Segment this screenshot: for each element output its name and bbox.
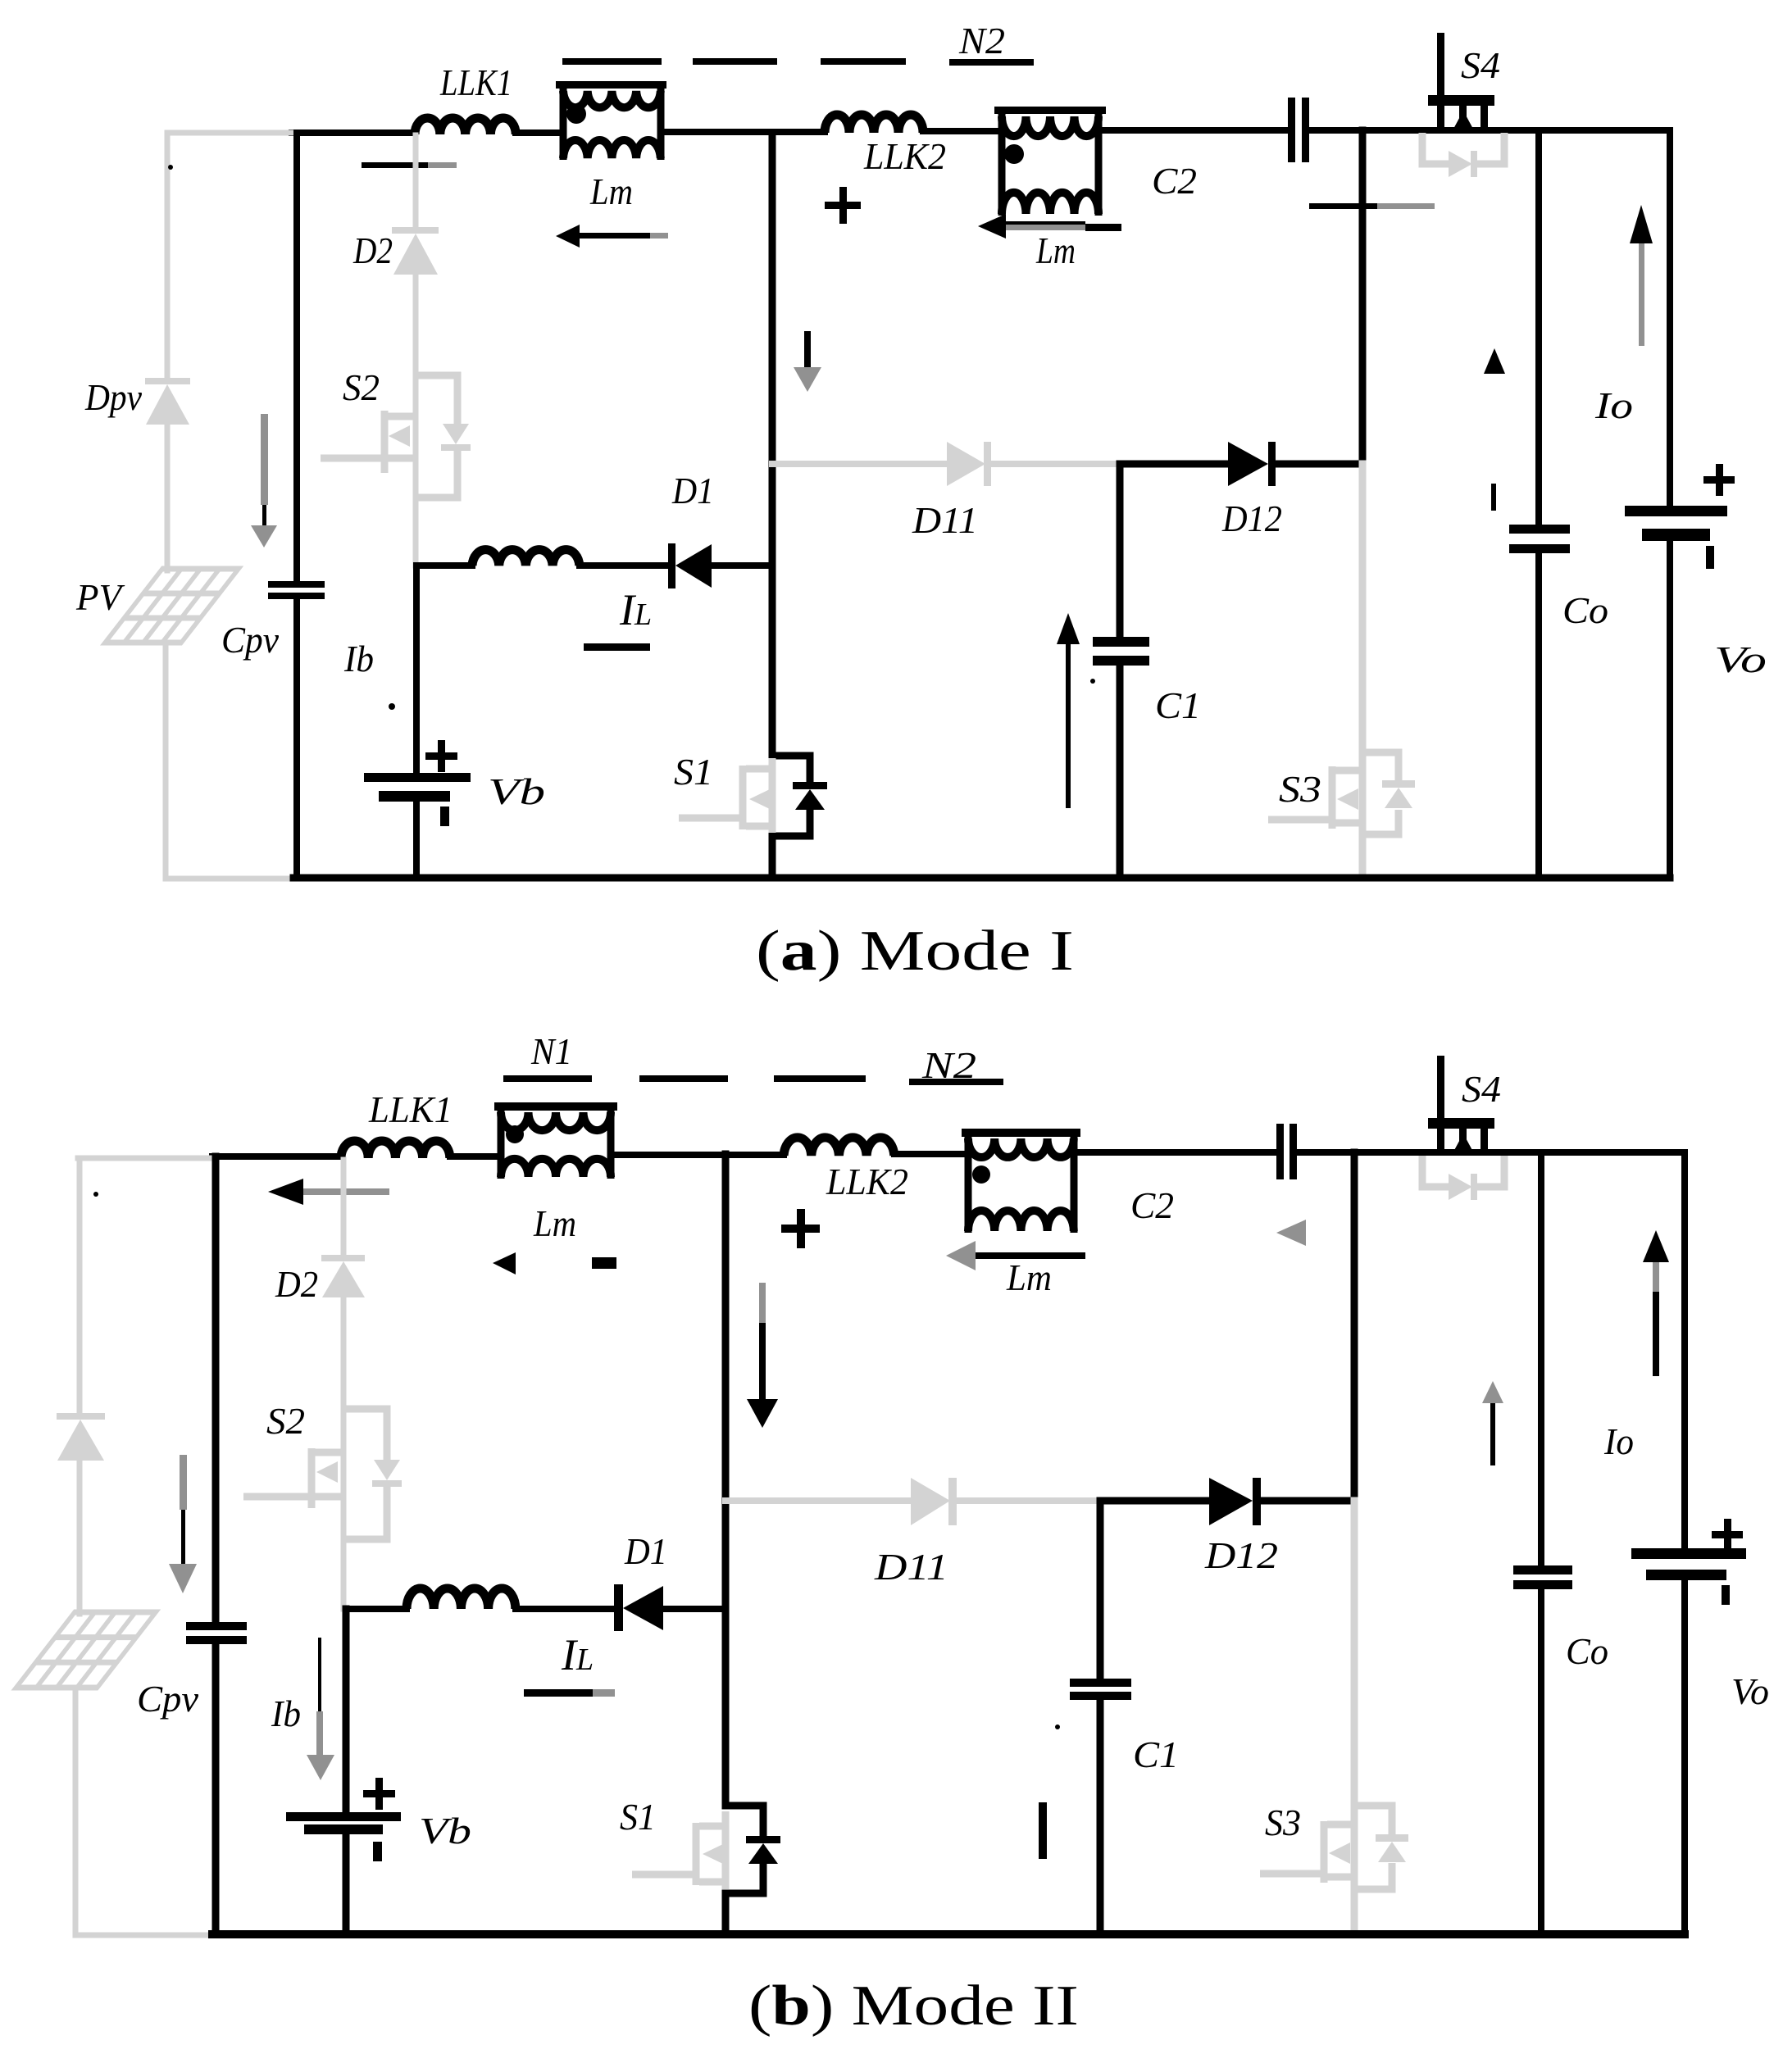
svg-text:C2: C2 (1152, 160, 1197, 202)
wire gray top-left segment (Mode II) (78, 1156, 212, 1161)
underline N2 (Mode II) (909, 1079, 1003, 1085)
transformer N1 secondary winding (Mode II) (501, 1159, 611, 1177)
PV panel (gray) (105, 569, 239, 643)
transformer N2 polarity dot (1004, 144, 1024, 164)
svg-text:LLK2: LLK2 (863, 135, 946, 177)
transformer N1 core bar (Mode II) (494, 1102, 617, 1111)
wire left black vertical upper (Mode II) (212, 1156, 220, 1622)
wire C1 branch upper (Mode II) (1097, 1501, 1104, 1679)
wire S3 column black upper (Mode II) (1351, 1152, 1358, 1501)
tick mark near C1 (Mode II) (1039, 1802, 1047, 1859)
transistor S1 gate structure (gray, Mode II) (632, 1811, 725, 1889)
battery Vb (Mode II) (286, 1778, 401, 1861)
svg-text:N2: N2 (958, 20, 1005, 61)
tick mark near Co (minus) (1491, 484, 1496, 511)
wire bottom rail (293, 875, 1670, 882)
capacitor C2 plates (Mode II) (1276, 1124, 1297, 1179)
svg-text:S4: S4 (1462, 1068, 1501, 1110)
arrow down (center column current, Mode II) (747, 1283, 778, 1428)
wire gray top-left segment (167, 130, 292, 136)
svg-text:(a) Mode I: (a) Mode I (756, 920, 1074, 983)
label plus sign (secondary voltage) (825, 187, 861, 224)
wire bottom rail (Mode II) (212, 1930, 1685, 1938)
wire top rail LLK1 to N1 (Mode II) (450, 1153, 501, 1160)
wire gray left vertical mid (165, 425, 171, 570)
wire top rail left segment (Mode II) (212, 1153, 341, 1160)
svg-text:S4: S4 (1461, 44, 1500, 86)
wire D11 gray segment left (772, 461, 947, 467)
arrow current Ipv (down, left column) (251, 414, 277, 548)
wire left black vertical upper (to Cpv) (293, 133, 300, 581)
arrow head left (Lm, Mode II) (493, 1252, 516, 1275)
wire D12 junction to diode (Mode II) (1100, 1497, 1209, 1505)
wire top rail between LLK1 and N1 (516, 129, 562, 136)
wire Co to bottom rail (Mode II) (1538, 1589, 1544, 1934)
svg-text:IL: IL (619, 585, 652, 634)
wire gray bottom-left segment (166, 876, 293, 882)
svg-text:Vo: Vo (1731, 1670, 1769, 1712)
wire D1 to center vertical (712, 562, 772, 569)
svg-text:Ib: Ib (271, 1693, 301, 1734)
transformer N2 left post (998, 111, 1006, 216)
diode Dpv (gray) (145, 378, 190, 425)
diode Dpv (gray, Mode II) (57, 1413, 105, 1461)
svg-text:D12: D12 (1204, 1534, 1278, 1576)
svg-text:Cpv: Cpv (137, 1678, 199, 1720)
svg-text:C2: C2 (1130, 1184, 1174, 1226)
transformer N1 right post (Mode II) (607, 1106, 615, 1179)
arrow up near Co (Mode II) (1482, 1381, 1503, 1465)
transformer N1 core bar (556, 81, 666, 89)
svg-text:Lm: Lm (533, 1202, 576, 1244)
svg-text:N1: N1 (530, 1030, 572, 1072)
wire top rail C2 to right corner (Mode II) (1296, 1149, 1685, 1156)
wire gray D2 to S2 (413, 275, 419, 566)
transformer N2 polarity dot (Mode II) (972, 1165, 990, 1184)
svg-text:Ib: Ib (343, 638, 374, 679)
arrow head left speckled near C2 (Mode II) (1276, 1220, 1306, 1246)
transistor S1 (black path with body diode, gray gate) (772, 566, 827, 878)
battery Vb (364, 740, 471, 826)
svg-text:D11: D11 (874, 1546, 948, 1588)
transformer N1 primary winding (563, 91, 661, 107)
battery Vo (Mode II) (1631, 1519, 1746, 1605)
transistor S4 (horizontal MOSFET, black, Mode II) (1428, 1056, 1494, 1153)
arrow head up near Co (1484, 348, 1505, 374)
wire center vertical (junction column) upper (769, 133, 776, 566)
arrow current Ipv (down, left column, Mode II) (169, 1455, 197, 1593)
transformer N2 core bar (Mode II) (962, 1129, 1080, 1137)
dashed line N1-N2 dash 1 (562, 58, 662, 65)
arrow up (C1 voltage) (1057, 613, 1080, 808)
transformer N1 left post (560, 85, 567, 160)
svg-text:D1: D1 (624, 1530, 667, 1572)
wire C1 branch upper (1117, 464, 1124, 638)
svg-text:PV: PV (75, 576, 125, 618)
transformer N2 right post (1095, 111, 1103, 216)
wire right vertical upper (Vo branch) (1667, 130, 1673, 507)
transistor S2 (gray MOSFET with body diode) (321, 375, 457, 498)
wire top rail left segment (292, 129, 415, 136)
arrow Lm current (left) under N1 (556, 225, 668, 248)
svg-text:D2: D2 (275, 1263, 318, 1305)
capacitor C1 (1093, 637, 1149, 666)
wire left black vertical lower (Cpv to bottom rail) (293, 599, 300, 878)
stray dot near Ib (389, 703, 395, 710)
svg-text:D1: D1 (671, 470, 714, 511)
dashed line N1-N2 dash 2 (693, 58, 777, 65)
arrow Lm current under N2 (Mode II) (946, 1241, 1085, 1270)
wire S3 column gray middle (1359, 464, 1367, 752)
label plus sign (Mode II) (781, 1209, 820, 1248)
wire Vb battery to bottom rail (413, 802, 420, 878)
svg-text:LLK2: LLK2 (826, 1161, 908, 1202)
arrow Io (up) (1630, 205, 1653, 346)
wire gray left vertical upper (165, 133, 171, 378)
wire Vo battery to bottom right corner (1667, 542, 1673, 878)
transistor S1 gate structure (gray) (679, 758, 772, 833)
arrow Lm current under N2 (978, 214, 1121, 239)
wire Vo battery to bottom right corner (Mode II) (1681, 1580, 1688, 1934)
wire gray left vertical lower (Mode II) (73, 1688, 79, 1935)
svg-text:C1: C1 (1155, 684, 1201, 726)
wire D11 gray segment right (991, 461, 1120, 467)
PV panel (gray, Mode II) (16, 1612, 156, 1688)
wire left black vertical lower (Mode II) (212, 1644, 220, 1934)
capacitor Co (1509, 525, 1570, 553)
wire gray D2 to S2 (Mode II) (341, 1297, 347, 1609)
transistor S1 (black path with body diode, Mode II) (725, 1609, 780, 1934)
wire Co to bottom rail (1535, 553, 1542, 878)
capacitor C2 plates (1288, 98, 1309, 162)
label minus (Mode II) (592, 1257, 616, 1269)
transformer N2 secondary winding (Mode II) (968, 1211, 1074, 1231)
stray dot top left (168, 165, 173, 170)
diode D12 (black) (1228, 442, 1276, 486)
dashed line N1-N2 dash 3 (821, 58, 906, 65)
wire top rail N2 to C2 (1098, 127, 1288, 134)
transformer N2 primary winding (1002, 116, 1098, 136)
wire right vertical upper (Vo branch, Mode II) (1681, 1152, 1688, 1548)
svg-text:Co: Co (1566, 1630, 1608, 1672)
wire D11 gray segment right (Mode II) (957, 1497, 1100, 1504)
inductor L (IL branch, Mode II) (407, 1588, 516, 1609)
arrow Io (up, Mode II) (1643, 1230, 1669, 1376)
capacitor Cpv (268, 581, 325, 599)
wire gray bottom-left segment (Mode II) (75, 1933, 212, 1938)
transistor S4 (horizontal MOSFET, black) (1428, 33, 1494, 130)
stray dot top left (Mode II) (93, 1192, 98, 1197)
dashed line dash 2 (Mode II) (774, 1075, 866, 1082)
svg-text:S2: S2 (266, 1400, 305, 1442)
capacitor C1 (Mode II) (1070, 1679, 1131, 1700)
wire D1 to center vertical (Mode II) (663, 1606, 725, 1612)
transformer N2 right post (Mode II) (1071, 1133, 1078, 1233)
svg-text:Co: Co (1562, 589, 1608, 631)
wire Co branch upper (1535, 130, 1542, 525)
svg-text:Lm: Lm (1035, 229, 1076, 271)
inductor LLK1 (Mode II) (341, 1141, 450, 1158)
svg-text:S1: S1 (620, 1796, 656, 1838)
diode D12 (black, Mode II) (1209, 1478, 1261, 1525)
inductor LLK2 (Mode II) (784, 1138, 894, 1156)
tick mark right of C2 (1309, 203, 1435, 209)
svg-text:IL: IL (561, 1630, 594, 1679)
inductor L (IL branch) (472, 550, 580, 566)
transformer N1 left post (Mode II) (498, 1106, 505, 1179)
wire top rail N2 to C2 (Mode II) (1074, 1149, 1276, 1156)
wire gray D2/S2 vertical top (Mode II) (341, 1160, 347, 1255)
tick mark near D2 (362, 162, 457, 168)
underline N1 (Mode II) (503, 1075, 592, 1082)
svg-text:C1: C1 (1133, 1733, 1179, 1775)
svg-text:Io: Io (1603, 1420, 1634, 1462)
svg-text:Vo: Vo (1714, 638, 1767, 680)
wire gray left vertical mid (Mode II) (77, 1461, 83, 1614)
svg-text:Vb: Vb (419, 1810, 471, 1852)
wire C1 to bottom rail (Mode II) (1097, 1700, 1104, 1934)
stray dot near C1 (Mode II) (1055, 1724, 1060, 1729)
wire Vb branch vertical upper (413, 566, 420, 773)
diode D2 (gray) (392, 227, 439, 275)
body diode loop of S4 (gray) (1422, 133, 1504, 177)
svg-text:Cpv: Cpv (221, 619, 280, 661)
stray dot near C1 (1090, 679, 1095, 684)
transistor S3 (gray MOSFET with body diode, Mode II) (1260, 1806, 1408, 1889)
inductor LLK1 (415, 118, 516, 134)
arrow down (center column current) (794, 331, 821, 392)
svg-text:Io: Io (1594, 384, 1633, 426)
wire D12 to S3 column (Mode II) (1261, 1497, 1354, 1505)
wire Vb branch vertical upper (Mode II) (343, 1609, 350, 1812)
diode D2 (gray, Mode II) (321, 1255, 365, 1297)
transformer N1 polarity dot (566, 104, 586, 124)
wire D12 to S3 column (1276, 461, 1362, 468)
diode D11 (gray, Mode II) (911, 1478, 957, 1525)
inductor LLK2 (825, 115, 923, 133)
diode D1 (black, pointing left) (668, 543, 712, 588)
svg-text:LLK1: LLK1 (439, 61, 512, 103)
arrow Lm current left of LLK1 (Mode II) (268, 1179, 389, 1205)
wire IL inductor to D1 (580, 562, 669, 569)
arrow Ib (down, Mode II) (307, 1638, 334, 1780)
wire Co branch upper (Mode II) (1538, 1152, 1544, 1566)
wire top rail LLK2 to N2 (Mode II) (894, 1151, 968, 1157)
svg-text:D11: D11 (912, 499, 978, 541)
transformer N1 primary winding (Mode II) (501, 1112, 611, 1130)
diode D11 (gray) (947, 442, 991, 486)
wire D11 gray segment left (Mode II) (725, 1497, 911, 1504)
body diode loop of S4 (gray, Mode II) (1422, 1156, 1504, 1200)
tick mark under IL (Mode II) (524, 1689, 615, 1697)
wire S3 column gray middle (Mode II) (1351, 1501, 1358, 1806)
svg-text:LLK1: LLK1 (368, 1088, 453, 1130)
wire IL branch left horizontal (Mode II) (346, 1606, 407, 1612)
transformer N2 left post (Mode II) (965, 1133, 972, 1233)
battery Vo (1625, 464, 1735, 569)
wire C1 to bottom rail (1117, 666, 1124, 878)
wire center vertical upper (Mode II) (722, 1154, 730, 1609)
svg-text:Dpv: Dpv (84, 376, 142, 418)
underline N2 (949, 59, 1034, 66)
wire IL branch left vertical (gray S2 column becomes black) (416, 562, 472, 569)
svg-text:Lm: Lm (1006, 1256, 1052, 1298)
svg-text:D12: D12 (1221, 498, 1282, 539)
svg-text:S3: S3 (1279, 768, 1321, 810)
capacitor Cpv (Mode II) (186, 1622, 247, 1644)
svg-text:S1: S1 (674, 751, 713, 793)
svg-text:S2: S2 (343, 366, 380, 408)
wire IL inductor to D1 (Mode II) (516, 1606, 614, 1612)
wire D12 junction to diode (1120, 461, 1228, 468)
svg-text:Lm: Lm (589, 170, 633, 212)
dashed line dash 1 (Mode II) (639, 1075, 728, 1082)
wire gray D2/S2 vertical top (413, 135, 419, 227)
wire top rail LLK2 to N2 (923, 128, 1002, 134)
diode D1 (black, pointing left, Mode II) (614, 1584, 663, 1631)
transistor S2 (gray MOSFET with body diode, Mode II) (243, 1409, 387, 1539)
transformer N1 secondary winding (563, 140, 661, 158)
wire S3 to bottom rail (gray, Mode II) (1351, 1889, 1358, 1932)
wire top rail N1 to LLK2 (Mode II) (611, 1152, 784, 1158)
transformer N2 secondary winding (1002, 193, 1098, 214)
wire Vb battery to bottom rail (Mode II) (343, 1834, 350, 1934)
capacitor Co (Mode II) (1513, 1565, 1572, 1589)
wire S3 column black upper (1359, 130, 1367, 464)
svg-text:(b) Mode II: (b) Mode II (748, 1974, 1079, 2038)
transformer N2 primary winding (Mode II) (968, 1138, 1074, 1157)
transistor S3 (gray MOSFET with body diode) (1268, 752, 1415, 834)
tick mark under IL (584, 643, 650, 651)
svg-text:D2: D2 (353, 229, 393, 271)
wire top rail N1 to junction to LLK2 (661, 129, 825, 135)
wire gray left vertical lower (163, 643, 169, 879)
transformer N2 core bar (994, 107, 1106, 114)
wire S3 to bottom rail (gray) (1359, 834, 1367, 878)
svg-text:S3: S3 (1265, 1802, 1301, 1843)
wire gray left vertical upper (Mode II) (77, 1158, 83, 1413)
wire top rail C2 to right corner (1308, 127, 1670, 134)
transformer N1 polarity dot (Mode II) (506, 1125, 524, 1143)
svg-text:Vb: Vb (488, 770, 545, 812)
transformer N1 right post (657, 85, 665, 160)
